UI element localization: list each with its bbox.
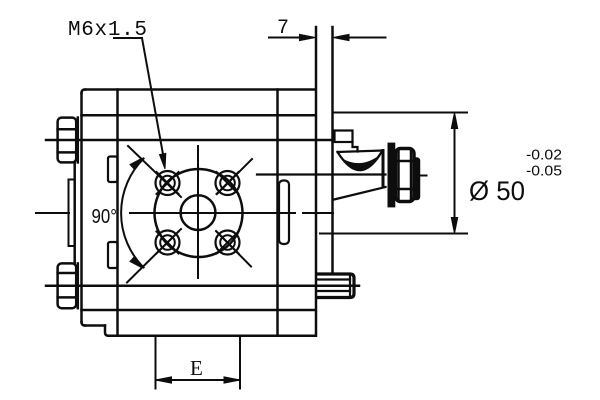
horizontal centerline main segment — [130, 212, 295, 214]
dia50 top extension line — [334, 112, 468, 114]
upper port line y115 — [82, 114, 316, 117]
rear plate edge between bolts — [73, 162, 76, 263]
diagonal centerline BR — [216, 231, 251, 267]
flange pilot circle — [155, 169, 243, 257]
rear cover vertical line — [116, 90, 119, 336]
diagonal centerline TL — [128, 146, 181, 197]
side port boss inner face — [349, 277, 351, 296]
shaft shoulder vertical — [382, 151, 385, 188]
hex bolt top-left facet lines — [58, 129, 77, 152]
inner boss rect upper — [108, 157, 118, 183]
bolt hole BL — [156, 231, 180, 255]
svg-text:-0.02: -0.02 — [526, 147, 562, 164]
horizontal centerline left segment — [36, 212, 69, 214]
90 degree arc — [121, 159, 144, 268]
dia50 arrow bottom — [451, 218, 457, 234]
hex nut facet verticals — [399, 150, 412, 200]
hex bolt bottom-left head — [58, 263, 77, 308]
body bottom step vertical — [105, 326, 108, 336]
svg-text:7: 7 — [277, 17, 289, 40]
dim E extension line left — [155, 336, 157, 389]
M6 leader underline — [114, 37, 142, 39]
mounting flange plate right line — [331, 27, 334, 274]
shaft bowl chord — [338, 151, 383, 153]
hex nut chamfer lines — [396, 161, 414, 189]
dia50 bottom extension line — [320, 233, 467, 235]
body bottom step horizontal — [85, 324, 105, 327]
pump body top edge — [85, 88, 316, 91]
vertical centerline of flange — [197, 146, 199, 278]
svg-text:Ø 50: Ø 50 — [469, 176, 525, 206]
dia50 dimension line — [454, 126, 456, 220]
side port boss thread lines — [318, 280, 351, 292]
svg-text:-0.05: -0.05 — [526, 163, 562, 180]
bolt hole TL — [156, 171, 180, 195]
dim 7 arrow left — [300, 34, 316, 40]
svg-text:90°: 90° — [92, 206, 118, 228]
dim E arrow right — [224, 377, 240, 383]
mounting flange plate left line — [315, 27, 318, 336]
shaft taper bottom line — [334, 187, 386, 200]
dim E extension line right — [239, 336, 241, 389]
right slot rectangle — [279, 181, 289, 245]
front cover vertical line — [276, 90, 279, 336]
bolt hole BR — [216, 231, 240, 255]
shaft bowl crescent — [342, 156, 380, 171]
body bottom edge — [108, 334, 315, 337]
dim 7 dimension line left — [269, 37, 301, 39]
shaft bowl big arc — [338, 151, 383, 170]
shaft center circle — [181, 195, 216, 230]
svg-text:E: E — [190, 356, 203, 380]
hex bolt top-left face plate — [77, 118, 80, 163]
hex nut outline — [396, 149, 415, 202]
diagonal centerline BL — [127, 229, 181, 283]
horizontal centerline right segment — [303, 212, 333, 214]
M6 leader line — [142, 38, 164, 157]
diagonal centerline TR — [217, 159, 252, 194]
lower port line y310 — [82, 309, 316, 312]
dim 7 arrow right — [333, 34, 349, 40]
body bottom-left step corner — [82, 322, 86, 326]
washer — [388, 144, 394, 207]
arc arrow top — [130, 158, 143, 170]
dim 7 dimension line right — [347, 37, 386, 39]
M6 leader arrowhead — [160, 153, 166, 169]
svg-text:M6x1.5: M6x1.5 — [68, 19, 147, 42]
bolt hole TR — [216, 171, 240, 195]
dia50 arrow top — [451, 113, 457, 129]
upper bolt line y140 — [46, 139, 333, 142]
side port boss — [317, 274, 354, 298]
arc arrow bottom — [130, 257, 143, 269]
dim E dimension line — [157, 379, 239, 381]
hex bolt bottom-left face plate — [77, 263, 80, 308]
dim E arrow left — [156, 377, 172, 383]
shaft upper step block — [335, 131, 353, 143]
body top-left rounded corner — [82, 90, 86, 94]
inner boss rect lower — [108, 242, 118, 268]
left port boss rectangle — [69, 180, 75, 247]
hex bolt top-left head — [58, 118, 77, 163]
shaft step lines — [353, 142, 358, 152]
hex bolt bottom-left facet lines — [58, 273, 77, 297]
shaft centerline stub right of nut — [420, 175, 427, 177]
lower bolt line y286 — [46, 284, 359, 287]
body left edge — [80, 93, 83, 322]
shaft centerline — [257, 173, 386, 175]
shaft end cap — [414, 158, 420, 200]
